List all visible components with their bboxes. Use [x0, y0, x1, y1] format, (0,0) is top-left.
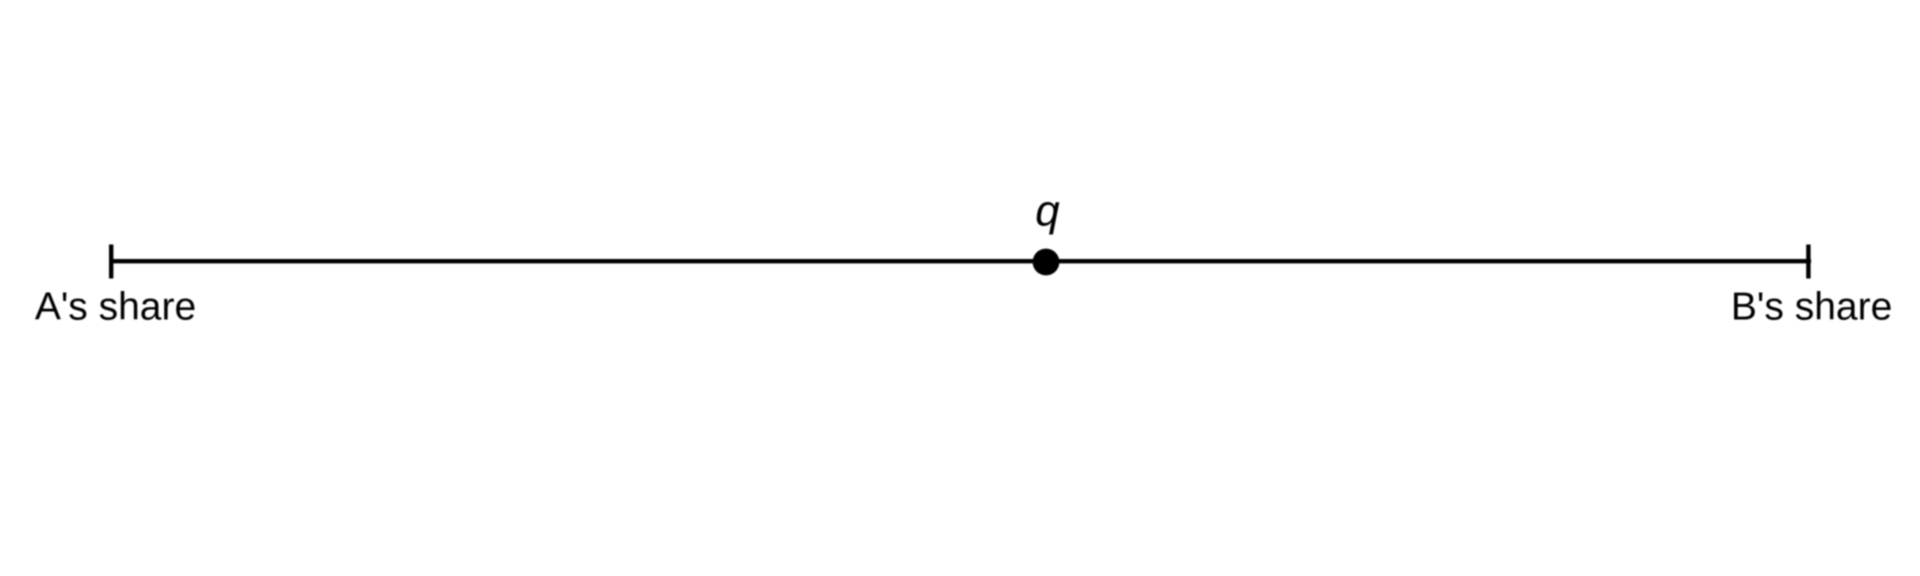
svg-text:B's share: B's share — [1731, 285, 1892, 328]
wire — [109, 259, 1811, 263]
node A — [109, 245, 113, 279]
svg-text:q: q — [1035, 187, 1060, 236]
svg-text:A's share: A's share — [35, 285, 196, 328]
node q — [1033, 249, 1060, 276]
node B — [1806, 245, 1810, 279]
